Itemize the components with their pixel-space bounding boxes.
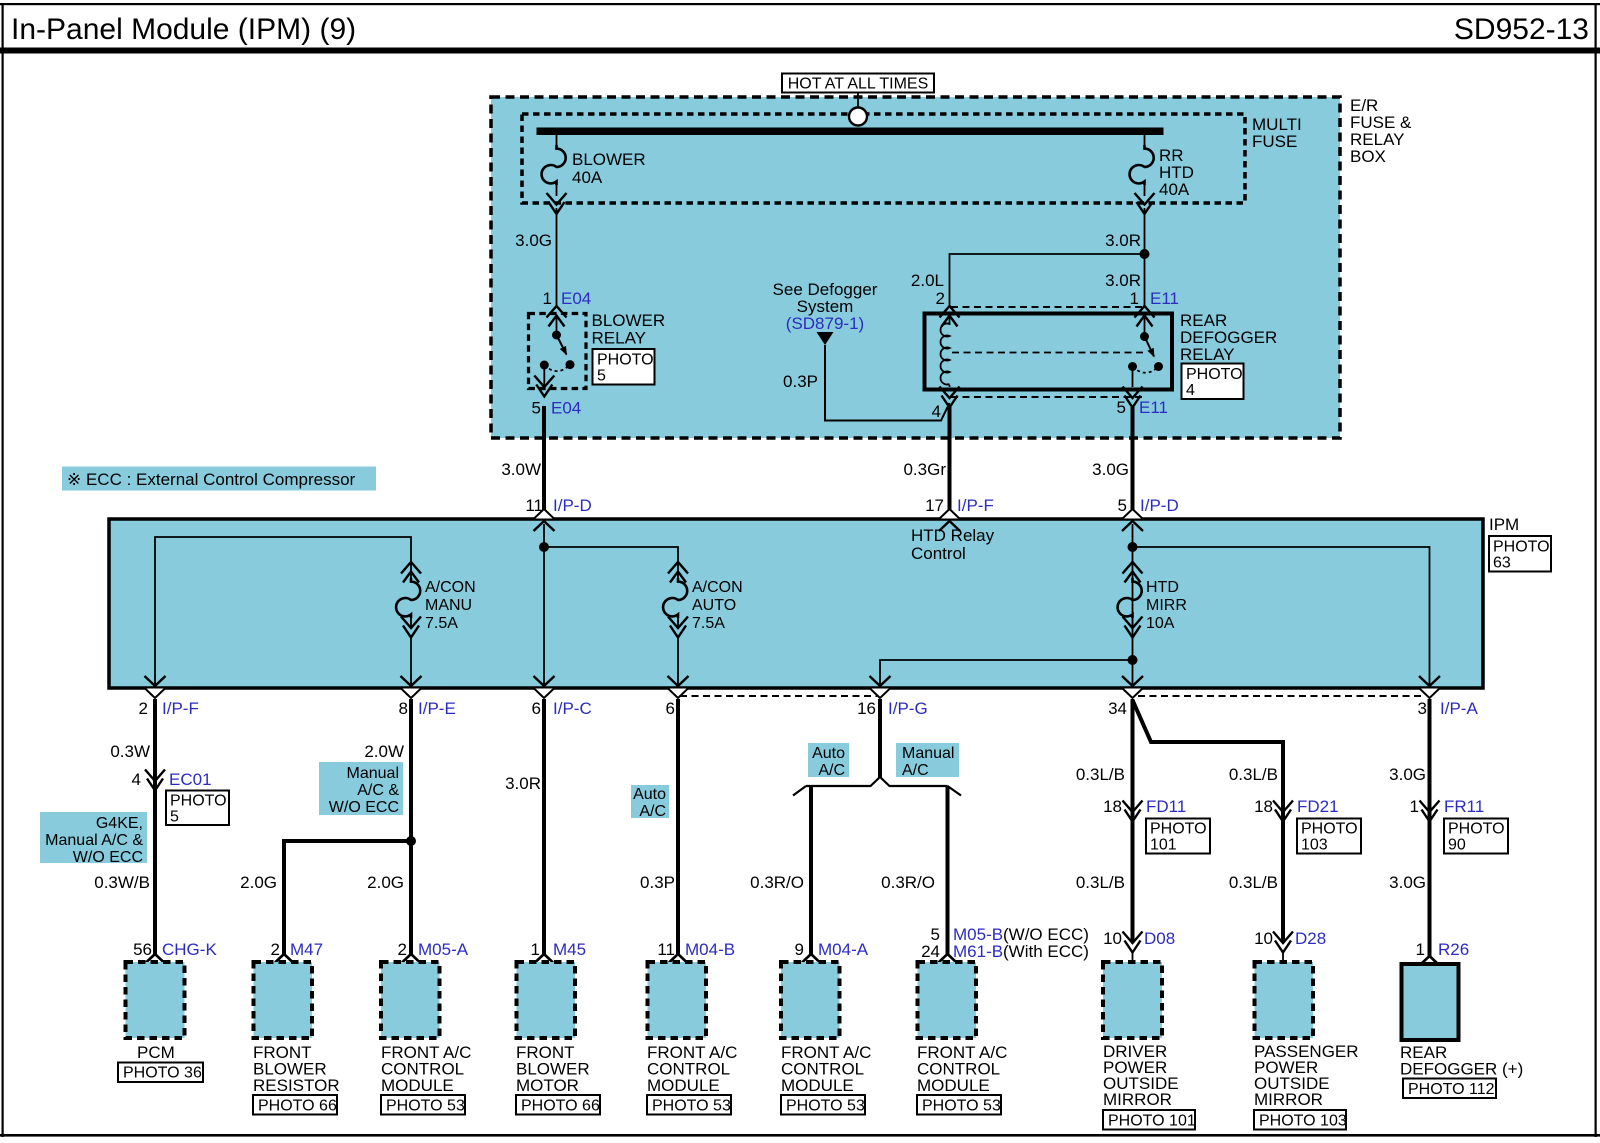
component REAR DEFOGGER box (1402, 964, 1459, 1040)
component PCM box (126, 962, 185, 1038)
blower relay switch (540, 316, 575, 387)
svg-text:0.3L/B: 0.3L/B (1229, 765, 1278, 784)
rear defogger relay coil (941, 314, 950, 388)
wire 3.0G pin3 to R26 (1428, 699, 1432, 956)
svg-text:10: 10 (1254, 929, 1273, 948)
svg-text:FD21: FD21 (1297, 797, 1339, 816)
svg-text:1: 1 (531, 940, 540, 959)
PHOTO 63 box (IPM) (1489, 536, 1551, 572)
wire branch to M04-A (809, 786, 813, 955)
svg-text:E11: E11 (1150, 289, 1179, 308)
frame top border line (0, 3, 1600, 5)
svg-text:I/P-C: I/P-C (553, 699, 592, 718)
svg-text:3.0G: 3.0G (515, 231, 552, 250)
wire 3.0R from RR HTD fuse to junction (1144, 208, 1146, 306)
component FRONT A/C CONTROL MODULE box (M05-B) (918, 962, 977, 1038)
svg-text:18: 18 (1103, 797, 1122, 816)
svg-text:1: 1 (543, 289, 552, 308)
connector 17 I/P-F at IPM top (939, 509, 961, 531)
connector pin 1 chevrons (1135, 306, 1155, 327)
junction node (1128, 655, 1138, 665)
split shoulders (793, 777, 961, 796)
connector pin 6 (667, 676, 689, 698)
fork into M45 (535, 954, 553, 963)
connector 10 D28 chevrons (1273, 932, 1293, 953)
component FRONT A/C CONTROL MODULE box (M05-A) (381, 962, 440, 1038)
PHOTO 103 box (D28) (1254, 1110, 1347, 1130)
PHOTO 5 box (blower relay) (593, 349, 655, 385)
svg-text:PHOTO 112: PHOTO 112 (1408, 1081, 1495, 1098)
wire into D08 (1132, 952, 1134, 962)
fork into M04-A (802, 954, 820, 963)
svg-text:EC01: EC01 (169, 770, 212, 789)
svg-text:I/P-F: I/P-F (162, 699, 199, 718)
svg-text:E11: E11 (1139, 398, 1168, 417)
wire 3.0R pin6 to M45 (542, 699, 546, 955)
wire branch pin34 to FD21 (1133, 700, 1284, 941)
junction node (1128, 542, 1138, 552)
svg-text:E04: E04 (561, 289, 591, 308)
note Auto A/C (M04-B) (631, 785, 669, 820)
connector 10 D08 chevrons (1123, 932, 1143, 953)
wire to A/CON AUTO fuse (544, 547, 678, 563)
svg-text:PHOTO 103: PHOTO 103 (1259, 1113, 1347, 1130)
svg-text:PHOTO 101: PHOTO 101 (1108, 1113, 1196, 1130)
wire 3.0G from blower fuse to blower relay (556, 208, 558, 306)
wire to pin 3 I/P-A (1133, 547, 1430, 684)
PHOTO 53 box (M04-A) (781, 1095, 865, 1115)
svg-text:FD11: FD11 (1146, 797, 1186, 816)
svg-text:In-Panel Module (IPM) (9): In-Panel Module (IPM) (9) (11, 13, 356, 46)
svg-text:M04-A: M04-A (818, 940, 869, 959)
svg-text:PHOTO 53: PHOTO 53 (386, 1098, 465, 1115)
wire 2.0W pin8 to M05-A (409, 699, 413, 955)
connector pin 1 chevrons at blower relay (547, 306, 567, 327)
component FRONT BLOWER RESISTOR box (254, 962, 313, 1038)
note Manual A/C (M05-B) (896, 743, 959, 779)
svg-text:PHOTO 66: PHOTO 66 (521, 1098, 600, 1115)
connector 11 I/P-D at IPM top (533, 509, 555, 531)
connector pin 2 I/P-F (144, 676, 166, 698)
note G4KE Manual A/C & W/O ECC (40, 812, 147, 866)
connector 18 FD21 chevrons (1273, 801, 1293, 822)
svg-text:0.3W/B: 0.3W/B (94, 873, 150, 892)
svg-text:2: 2 (271, 940, 280, 959)
wire 0.3W pin2 to PCM (153, 699, 157, 955)
svg-text:(SD879-1): (SD879-1) (786, 314, 864, 333)
svg-text:IPM: IPM (1489, 515, 1519, 534)
svg-text:R26: R26 (1438, 940, 1469, 959)
svg-text:5: 5 (1118, 496, 1127, 515)
component FRONT BLOWER MOTOR box (517, 962, 576, 1038)
svg-text:HOT AT ALL TIMES: HOT AT ALL TIMES (788, 76, 929, 93)
svg-text:SD952-13: SD952-13 (1454, 13, 1589, 46)
relay linkage dashed line (952, 352, 1147, 354)
svg-text:PHOTO 53: PHOTO 53 (786, 1098, 865, 1115)
svg-text:0.3P: 0.3P (783, 372, 818, 391)
fork into M05-B (939, 954, 957, 963)
svg-text:M47: M47 (290, 940, 323, 959)
svg-text:0.3L/B: 0.3L/B (1076, 765, 1125, 784)
svg-text:PHOTO 66: PHOTO 66 (258, 1098, 337, 1115)
svg-text:3.0R: 3.0R (505, 774, 541, 793)
wire 3.0G defogger relay pin5 to IPM (1131, 407, 1135, 517)
component PASSENGER POWER OUTSIDE MIRROR box (1255, 962, 1314, 1038)
fuse A/CON AUTO 7.5A (663, 562, 743, 684)
PHOTO 66 box (253, 1095, 337, 1115)
svg-text:0.3W: 0.3W (110, 742, 150, 761)
svg-text:3: 3 (1418, 699, 1427, 718)
fuse BLOWER 40A (542, 135, 646, 214)
junction node (539, 542, 549, 552)
svg-text:FR11: FR11 (1444, 797, 1484, 816)
PHOTO 112 box (R26) (1403, 1079, 1496, 1099)
svg-text:MULTIFUSE: MULTIFUSE (1252, 115, 1302, 151)
connector pin 2 chevrons (940, 306, 960, 327)
note Auto A/C (M04-A) (808, 743, 849, 779)
svg-text:PHOTO 36: PHOTO 36 (123, 1065, 202, 1082)
PHOTO 90 box (FR11) (1444, 819, 1508, 854)
svg-text:9: 9 (795, 940, 804, 959)
PHOTO 53 box (M05-B) (917, 1095, 1001, 1115)
connector 4 EC01 chevrons (145, 770, 165, 791)
connector pin 8 I/P-E (400, 676, 422, 698)
E/R fuse & relay box (cyan dashed) (491, 97, 1340, 438)
fork into M04-B (669, 954, 687, 963)
svg-text:I/P-D: I/P-D (1140, 496, 1179, 515)
node circle on multi fuse box (849, 108, 867, 126)
HOT AT ALL TIMES box (782, 74, 934, 93)
svg-text:0.3R/O: 0.3R/O (750, 873, 804, 892)
svg-text:I/P-G: I/P-G (888, 699, 928, 718)
svg-text:D08: D08 (1144, 929, 1175, 948)
fork into PCM (146, 954, 164, 963)
wire branch to M05-B (946, 786, 950, 955)
wire branch to M47 (284, 841, 411, 955)
wire inside IPM pin5 down (1132, 524, 1134, 684)
svg-text:2: 2 (139, 699, 148, 718)
wire pin16 split (878, 699, 882, 778)
svg-text:M05-A: M05-A (418, 940, 469, 959)
frame left border line (2, 3, 4, 1137)
svg-text:5: 5 (1117, 398, 1126, 417)
PHOTO 101 box (D08) (1103, 1110, 1196, 1130)
PHOTO 4 box (rear defogger relay) (1182, 364, 1244, 400)
component FRONT A/C CONTROL MODULE box (M04-B) (648, 962, 707, 1038)
svg-text:1: 1 (1410, 797, 1419, 816)
fork into M05-A (402, 954, 420, 963)
connector pin 3 I/P-A (1419, 676, 1441, 698)
dashed connector line pin34-pin3 (1138, 695, 1424, 697)
svg-text:0.3L/B: 0.3L/B (1229, 873, 1278, 892)
wire MANU fuse feed (155, 537, 411, 684)
svg-text:56: 56 (133, 940, 152, 959)
MULTI FUSE dashed box (522, 114, 1245, 203)
svg-text:16: 16 (857, 699, 876, 718)
svg-text:6: 6 (532, 699, 541, 718)
svg-text:2: 2 (398, 940, 407, 959)
svg-text:PCM: PCM (137, 1043, 175, 1062)
frame right border line (1595, 3, 1597, 1137)
svg-text:M04-B: M04-B (685, 940, 735, 959)
wire 0.3L/B pin34 to D08 (1131, 699, 1135, 941)
svg-text:5: 5 (532, 399, 541, 418)
wire into D28 (1282, 952, 1284, 962)
fork into M47 (275, 954, 293, 963)
svg-text:PHOTO 53: PHOTO 53 (922, 1098, 1001, 1115)
dashed connector line E11 bottom (951, 396, 1142, 398)
svg-text:8: 8 (399, 699, 408, 718)
svg-text:DRIVERPOWEROUTSIDEMIRROR: DRIVERPOWEROUTSIDEMIRROR (1103, 1042, 1179, 1109)
connector pin 4 chevrons (940, 387, 960, 408)
svg-text:1: 1 (1130, 289, 1139, 308)
svg-text:I/P-A: I/P-A (1440, 699, 1478, 718)
component FRONT A/C CONTROL MODULE box (M04-A) (781, 962, 840, 1038)
connector 1 FR11 chevrons (1420, 801, 1440, 822)
connector pin 5 chevrons below blower relay (534, 376, 554, 397)
svg-text:I/P-F: I/P-F (957, 496, 994, 515)
svg-text:24: 24 (921, 942, 940, 961)
svg-text:6: 6 (666, 699, 675, 718)
svg-text:11: 11 (657, 940, 675, 959)
svg-text:3.0R: 3.0R (1105, 271, 1141, 290)
svg-text:2.0G: 2.0G (367, 873, 404, 892)
svg-text:(With ECC): (With ECC) (1003, 942, 1089, 961)
PHOTO 53 box (M04-B) (647, 1095, 731, 1115)
component DRIVER POWER OUTSIDE MIRROR box (1103, 962, 1162, 1038)
fuse A/CON MANU 7.5A (396, 562, 476, 684)
svg-text:0.3R/O: 0.3R/O (881, 873, 935, 892)
PHOTO 66 box (M45) (516, 1095, 600, 1115)
connector 18 FD11 chevrons (1123, 801, 1143, 822)
PHOTO 101 box (FD11) (1146, 819, 1210, 854)
junction node (1140, 249, 1150, 259)
connector pin 34 (1122, 676, 1144, 698)
wire from HOT box to node (857, 93, 859, 109)
ECC note (62, 467, 376, 491)
svg-text:17: 17 (925, 496, 944, 515)
svg-text:18: 18 (1254, 797, 1273, 816)
svg-text:M45: M45 (553, 940, 586, 959)
svg-text:4: 4 (132, 770, 141, 789)
svg-text:34: 34 (1108, 699, 1127, 718)
svg-text:2.0L: 2.0L (911, 271, 944, 290)
svg-text:3.0G: 3.0G (1389, 873, 1426, 892)
svg-text:I/P-D: I/P-D (553, 496, 592, 515)
svg-text:CHG-K: CHG-K (162, 940, 217, 959)
wire inside IPM pin11 to pin6 (543, 524, 545, 684)
fuse HTD MIRR 10A (1118, 562, 1187, 638)
header underline (0, 48, 1600, 54)
connector pin 5 chevrons (1123, 387, 1143, 408)
rear defogger relay box (925, 314, 1173, 390)
IPM box (109, 519, 1483, 688)
svg-text:3.0G: 3.0G (1092, 460, 1129, 479)
svg-text:10: 10 (1103, 929, 1122, 948)
svg-text:0.3Gr: 0.3Gr (903, 460, 946, 479)
power bus bar (537, 128, 1164, 136)
fuse RR HTD 40A (1130, 135, 1194, 214)
svg-text:2.0G: 2.0G (240, 873, 277, 892)
PHOTO 36 box (118, 1063, 203, 1083)
svg-text:0.3P: 0.3P (640, 873, 675, 892)
svg-text:4: 4 (932, 402, 941, 421)
wire from junction to relay coil pin 2 (950, 254, 1145, 306)
svg-text:0.3L/B: 0.3L/B (1076, 873, 1125, 892)
svg-text:M61-B: M61-B (953, 942, 1003, 961)
rear defogger relay switch (1128, 316, 1163, 387)
connector pin 16 I/P-G (869, 676, 891, 698)
frame bottom border line (0, 1134, 1600, 1137)
wire from defogger note to relay pin 4 (825, 345, 950, 421)
svg-text:2: 2 (936, 289, 945, 308)
svg-text:PHOTO 53: PHOTO 53 (652, 1098, 731, 1115)
PHOTO 103 box (FD21) (1297, 819, 1361, 854)
svg-text:E04: E04 (551, 399, 581, 418)
wire to pin 16 I/P-G (880, 660, 1133, 684)
wire 0.3P pin6 to M04-B (676, 699, 680, 955)
blower relay dashed box (529, 314, 587, 389)
svg-text:3.0W: 3.0W (501, 460, 541, 479)
svg-text:3.0G: 3.0G (1389, 765, 1426, 784)
connector 5 I/P-D at IPM top (1122, 509, 1144, 531)
svg-text:D28: D28 (1295, 929, 1326, 948)
svg-text:2.0W: 2.0W (364, 742, 404, 761)
wire 0.3Gr defogger relay pin4 to IPM (948, 407, 952, 517)
dashed connector line pin6-pin16 (680, 695, 877, 697)
dashed connector line E11 top (951, 306, 1142, 308)
svg-text:I/P-E: I/P-E (418, 699, 456, 718)
svg-text:※ ECC : External Control Compr: ※ ECC : External Control Compressor (67, 470, 356, 489)
svg-text:3.0R: 3.0R (1105, 231, 1141, 250)
junction node (406, 836, 416, 846)
connector pin 6 I/P-C (533, 676, 555, 698)
fork into R26 (1421, 956, 1439, 965)
wire 3.0W blower relay to IPM (542, 406, 546, 517)
note Manual A/C & W/O ECC (319, 762, 403, 816)
PHOTO 5 box (EC01) (166, 791, 229, 826)
triangle arrow to defogger wire (817, 332, 834, 345)
svg-text:1: 1 (1416, 940, 1425, 959)
PHOTO 53 box (381, 1095, 465, 1115)
